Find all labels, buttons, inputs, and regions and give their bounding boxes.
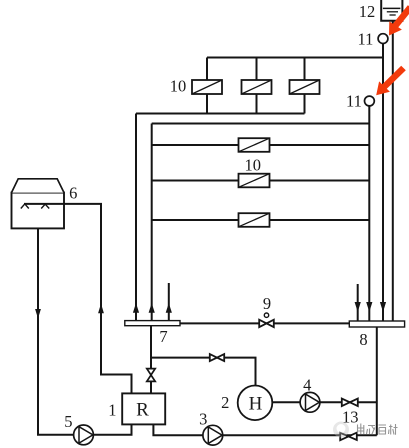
flow arrow down on riser A (366, 302, 372, 312)
wire heater H to riser via pump4 (256, 401, 377, 403)
header 7 supply header bar (125, 321, 180, 326)
wire tank6 bottom drop to pump5 line (38, 228, 132, 434)
wire radiator row 1 (152, 144, 370, 146)
flow arrow down on tank6 drop (35, 309, 41, 319)
wire stub riser into header7 (168, 283, 170, 321)
radiator 10 top box3 (290, 80, 320, 94)
flow arrow up on stub of header7 (166, 303, 172, 313)
red pointer arrow at lower air vent (376, 66, 406, 95)
wire riser C expansion-tank to header8 (392, 21, 394, 321)
svg-text:1: 1 (108, 401, 116, 420)
red pointer arrow at upper air vent (389, 5, 409, 35)
wire mid supply line (152, 123, 370, 125)
svg-text:3: 3 (199, 410, 207, 429)
valve 13 lower (340, 433, 357, 441)
wire riser box3 bottom (304, 94, 306, 114)
svg-text:10: 10 (244, 156, 261, 175)
radiator 10 row3 box (239, 213, 270, 227)
wire tank6 outlet pipe to boiler (24, 204, 132, 395)
wire radiator row 3 (152, 219, 370, 221)
wire top return main (136, 113, 305, 115)
wire riser A air-vent to header8 (368, 106, 370, 321)
svg-text:H: H (249, 393, 263, 414)
valve 9 with stem circle (259, 313, 274, 327)
pump 5 (74, 425, 94, 445)
svg-text:2: 2 (221, 393, 229, 412)
flow arrow down on stub of header8 (355, 302, 361, 312)
valve 13 upper (342, 399, 358, 407)
wire header7 drop to boiler (150, 326, 152, 395)
svg-text:4: 4 (303, 376, 311, 395)
wire riser box3 top (304, 58, 306, 81)
wire header7 to header8 link (180, 322, 349, 324)
radiator 10 row1 box (239, 138, 270, 152)
svg-text:9: 9 (263, 294, 271, 313)
make-up tank 6 (12, 179, 65, 229)
header 8 return header bar (349, 321, 404, 327)
wire stub riser into header8 (357, 284, 359, 321)
valve on branch to heater (210, 354, 224, 361)
flow arrow up on expansion pipe (98, 304, 104, 314)
svg-text:6: 6 (69, 184, 77, 203)
svg-text:11: 11 (346, 92, 362, 111)
wire header8 drop (376, 327, 378, 435)
radiator 10 top box2 (242, 80, 272, 94)
svg-text:8: 8 (359, 330, 367, 349)
wire riser box2 bottom (256, 94, 258, 114)
watermark logo (333, 422, 349, 438)
wire riser box1 top (206, 58, 208, 81)
wire top supply main (207, 57, 383, 59)
air vent 11 upper (378, 34, 388, 44)
watermark text 制冷百科 (357, 424, 398, 435)
flow arrow down on riser B (380, 302, 386, 312)
svg-text:7: 7 (159, 327, 167, 346)
svg-text:12: 12 (359, 2, 376, 21)
flow arrow up into riser mid of header7 (149, 303, 155, 313)
pump 4 (300, 392, 320, 412)
wire radiator row 2 (152, 180, 370, 182)
air vent 11 lower (365, 96, 375, 106)
svg-text:5: 5 (64, 412, 72, 431)
svg-text:R: R (136, 400, 149, 421)
boiler R (1) (122, 393, 165, 424)
radiator 10 top box1 (192, 80, 222, 94)
valve on boiler feed (vertical) (147, 369, 155, 382)
pump 3 (203, 425, 223, 445)
heater H (2) (238, 386, 273, 421)
wire riser box2 top (256, 58, 258, 81)
svg-text:10: 10 (170, 77, 187, 96)
flow arrow up into riser left of header7 (133, 303, 139, 313)
wire riser B air-vent to header8 (382, 44, 384, 322)
wire top return riser to header7 (135, 114, 137, 321)
wire boiler outlet bottom right (153, 424, 376, 436)
radiator 10 row2 box (239, 174, 270, 188)
expansion tank 12 (381, 0, 402, 21)
svg-text:11: 11 (358, 30, 374, 49)
wire mid supply riser to header7 (151, 124, 153, 321)
wire branch to heater H (151, 358, 256, 386)
wire riser box1 bottom (206, 94, 208, 114)
